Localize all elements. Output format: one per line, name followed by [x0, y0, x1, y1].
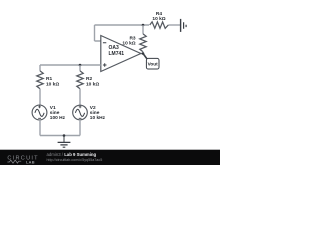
op-amp U1 OA3 LM741 [101, 36, 141, 72]
svg-text:10 kHz: 10 kHz [90, 115, 106, 121]
ground bottom [58, 136, 71, 148]
svg-text:10 kΩ: 10 kΩ [86, 81, 99, 87]
wire V1 bottom lead [39, 120, 41, 136]
svg-text:10 kΩ: 10 kΩ [46, 81, 59, 87]
wire V2 bottom lead [79, 120, 81, 136]
logo CircuitLab wordmark [7, 155, 38, 164]
resistor R3 [140, 34, 146, 52]
node junction R3/R4/feedback [142, 24, 145, 27]
resistor R4 [150, 22, 169, 28]
svg-text:LAB: LAB [26, 159, 35, 164]
wire R4 right lead to ground [168, 24, 180, 26]
node junction ground tap [63, 134, 66, 137]
label R2 value [86, 76, 99, 87]
node junction op-amp output / R3 / Vout [142, 52, 145, 55]
svg-text:100 Hz: 100 Hz [50, 115, 66, 121]
wire top feedback net from op-amp inverting input up and across to R3/R4 [95, 25, 150, 41]
wire R1 top lead [39, 65, 41, 71]
resistor R2 [77, 71, 83, 89]
wire R3 top lead [142, 25, 144, 34]
svg-text:admin3 / Lab 9 Summing: admin3 / Lab 9 Summing [47, 152, 97, 157]
wire non-inverting input rail [40, 64, 101, 66]
wire R1 to V1 [39, 89, 41, 106]
footer bar [0, 150, 220, 165]
node junction R2 top [79, 64, 82, 67]
source V1 sine 100 Hz [32, 105, 47, 120]
footer title text [47, 152, 103, 162]
ground sideways right [181, 19, 187, 32]
svg-text:R1: R1 [46, 76, 52, 82]
svg-text:R2: R2 [86, 76, 92, 82]
flag Vout [143, 54, 159, 70]
label R4 value [152, 11, 165, 22]
svg-text:Vout: Vout [148, 62, 159, 67]
source V2 sine 10 kHz [73, 105, 88, 120]
label R1 value [46, 76, 59, 87]
wire R2 top lead [79, 65, 81, 71]
resistor R1 [37, 71, 43, 89]
svg-text:10 kΩ: 10 kΩ [152, 16, 165, 22]
label V2 [90, 105, 106, 121]
wire R3 bottom lead [141, 52, 143, 54]
label V1 [50, 105, 66, 121]
label R3 value [122, 35, 136, 46]
svg-text:LM741: LM741 [109, 51, 125, 57]
svg-text:http://circuitlab.com/c/5yq55a: http://circuitlab.com/c/5yq55a7ac5 [47, 158, 103, 162]
wire bottom rail [40, 135, 80, 137]
wire R2 to V2 [79, 89, 81, 106]
svg-text:R3: R3 [129, 35, 135, 41]
